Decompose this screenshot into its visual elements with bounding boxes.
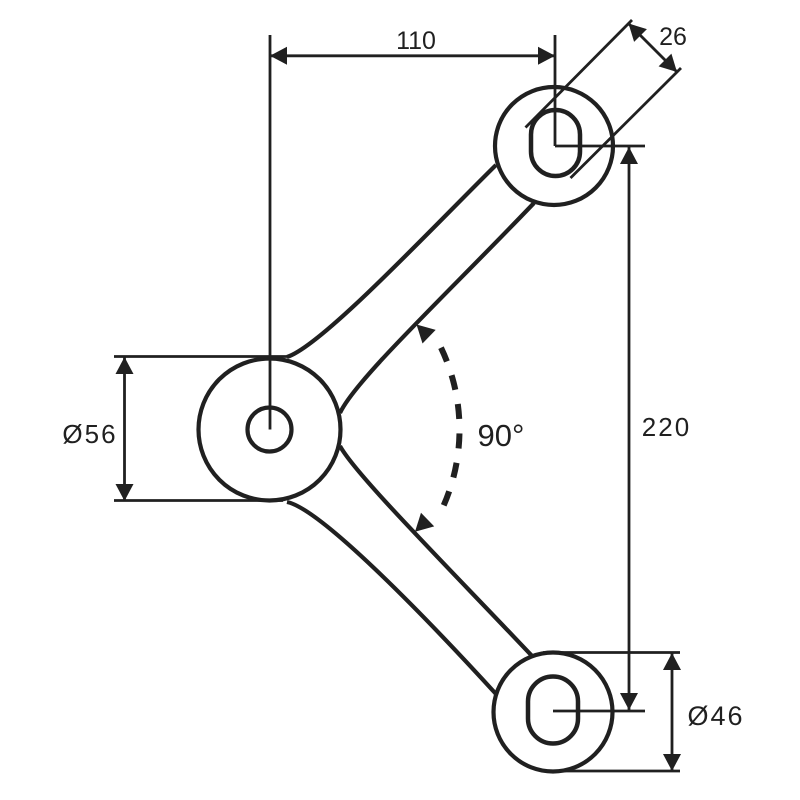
dia46 arrow bottom (663, 754, 681, 771)
hub bore (248, 408, 292, 452)
arm upper edge B (340, 203, 534, 413)
top slot (531, 110, 580, 176)
bottom circle top tangent (543, 651, 680, 654)
angle arrow lower (415, 513, 434, 532)
arm upper edge A (287, 165, 496, 357)
26 arrow lower (659, 54, 677, 72)
220 arrow bottom (620, 693, 638, 710)
110 arrow right (538, 47, 555, 65)
angle arc dashed (441, 348, 460, 512)
bottom circle (494, 653, 613, 772)
dia46 arrow top (663, 653, 681, 670)
svg-text:110: 110 (396, 27, 436, 55)
svg-text:Ø46: Ø46 (687, 701, 744, 731)
110 extension right (554, 35, 557, 146)
26 arrow upper (629, 24, 647, 42)
svg-text:220: 220 (642, 412, 691, 442)
dia46 dim line (671, 653, 674, 771)
angle arrow upper (417, 325, 436, 344)
26 extension line lower (571, 68, 682, 178)
110 dim line (270, 54, 555, 57)
hub top tangent line (114, 355, 288, 358)
220 dim line (628, 147, 631, 710)
arm lower edge C (340, 446, 533, 657)
top circle center line (555, 145, 645, 148)
bottom circle center line (553, 710, 645, 713)
arm lower edge D (287, 502, 496, 694)
hub circle (199, 359, 341, 501)
hub bottom tangent line (114, 499, 283, 502)
top circle (495, 87, 613, 205)
bottom circle bottom tangent (560, 770, 680, 773)
svg-text:90°: 90° (478, 418, 525, 453)
110 extension left (269, 35, 272, 430)
26 dim shaft (629, 24, 678, 73)
26 extension line upper (526, 20, 633, 128)
220 arrow top (620, 147, 638, 164)
dia56 arrow bottom (116, 484, 134, 501)
svg-text:26: 26 (659, 23, 687, 51)
dia56 dim line (123, 357, 126, 501)
bottom slot (528, 677, 578, 744)
dia56 arrow top (116, 357, 134, 374)
svg-text:Ø56: Ø56 (62, 419, 117, 449)
110 arrow left (270, 47, 287, 65)
